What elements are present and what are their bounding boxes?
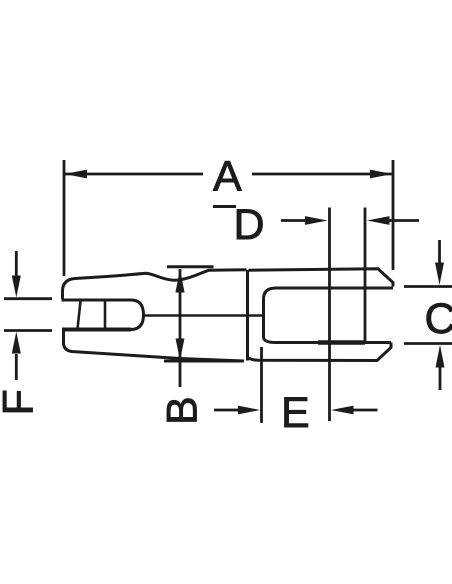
dim C bottom arrowhead <box>436 345 445 368</box>
dim D right extension line <box>364 208 367 342</box>
dim C top extension line <box>404 285 452 288</box>
dim E right arrow line <box>353 409 378 412</box>
dim D left arrowhead <box>305 216 328 225</box>
svg-text:C: C <box>425 295 452 343</box>
dim A left arrowhead <box>65 170 88 179</box>
dim B bottom extension line <box>164 360 242 363</box>
svg-text:F: F <box>0 389 43 415</box>
dim A right arrowhead <box>370 170 393 179</box>
dim A right extension line <box>392 160 395 270</box>
dim C bottom extension line <box>404 342 452 345</box>
chain slot rounded end cap <box>131 300 144 330</box>
dim E left arrow line <box>214 409 240 412</box>
dim D right arrowhead <box>367 216 390 225</box>
dim C top arrow shaft <box>438 240 441 264</box>
dim F bottom extension line <box>4 329 52 332</box>
fork outer top edge with chamfer <box>249 269 394 287</box>
svg-text:D: D <box>234 201 265 249</box>
chain slot bottom line (thick) <box>62 328 131 332</box>
svg-text:B: B <box>159 396 207 425</box>
dim B top extension line <box>167 265 214 268</box>
slot pin line 1 <box>78 301 81 329</box>
dim E right arrowhead <box>331 406 354 415</box>
dim F bottom arrow shaft <box>15 354 18 380</box>
dim C bottom arrow shaft <box>439 366 442 390</box>
fork inner top edge and inner wall <box>264 288 394 343</box>
dim D / dim E shared extension line <box>328 208 331 422</box>
body outline top (left jaw to neck) <box>63 270 247 299</box>
swivel seam vertical line <box>246 270 249 361</box>
dim F top arrow shaft <box>15 251 18 277</box>
svg-text:A: A <box>213 153 242 201</box>
dim D left arrow line <box>281 219 306 222</box>
dim B vertical line <box>179 269 182 387</box>
dim B down arrowhead <box>176 339 185 361</box>
swivel mid seam line <box>144 314 264 317</box>
body outline bottom (left jaw to seam) <box>64 331 245 361</box>
dim A line left segment <box>65 173 203 176</box>
dim B up arrowhead <box>175 269 184 292</box>
fork tip bottom vertical and chamfer <box>249 343 392 361</box>
dim F bottom arrowhead <box>12 332 21 354</box>
svg-text:E: E <box>281 389 310 437</box>
dim A left extension line <box>63 160 66 276</box>
dim C top arrowhead <box>435 263 444 286</box>
dim E left extension line <box>260 347 263 423</box>
dim F top extension line <box>4 297 52 300</box>
dim A line right segment <box>252 173 392 176</box>
dim D right arrow line <box>389 219 419 222</box>
slot pin line 2 <box>104 301 107 329</box>
dim D dash <box>213 205 236 208</box>
dim E left arrowhead <box>238 406 260 415</box>
dim F top arrowhead <box>12 276 21 298</box>
fork inner bottom thick segment <box>318 340 365 345</box>
chain slot top line <box>62 299 132 302</box>
